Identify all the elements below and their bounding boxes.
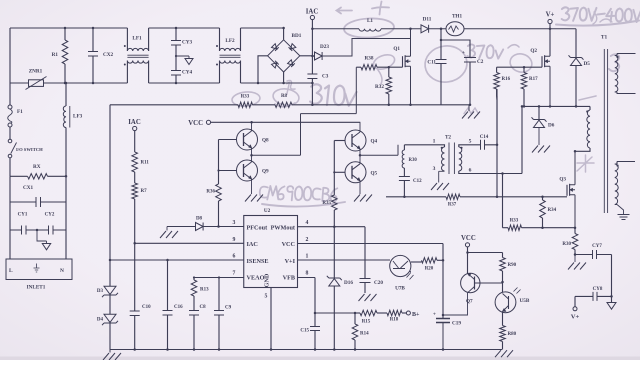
pin 7 — [233, 270, 236, 276]
svg-text:C16: C16 — [174, 305, 183, 310]
capacitor C9 — [214, 278, 232, 351]
svg-text:D6: D6 — [548, 123, 555, 129]
resistor R8 — [275, 94, 292, 108]
resistor RX — [10, 164, 67, 179]
svg-text:8: 8 — [306, 270, 309, 276]
svg-text:5: 5 — [469, 139, 472, 145]
node V+ — [571, 296, 580, 320]
svg-text:L1: L1 — [367, 18, 373, 24]
svg-text:R35: R35 — [322, 201, 331, 206]
svg-text:VCC: VCC — [188, 120, 203, 127]
wire — [496, 96, 498, 145]
resistor R13 — [191, 278, 209, 311]
svg-text:R37: R37 — [448, 203, 457, 208]
ground — [568, 255, 586, 270]
svg-text:PFCout: PFCout — [247, 224, 269, 231]
pencil arrow — [337, 8, 353, 14]
ground — [354, 195, 372, 202]
svg-text:Q1: Q1 — [393, 46, 400, 52]
resistor R33 — [503, 219, 576, 231]
T1 secondary winding top — [615, 54, 636, 94]
transistor Q5 — [334, 155, 377, 194]
svg-text:T2: T2 — [445, 135, 451, 141]
transistor Q7 — [461, 273, 503, 304]
svg-text:CY3: CY3 — [182, 40, 192, 46]
ground — [175, 55, 193, 65]
switch I/O SWITCH — [8, 127, 43, 176]
node VCC — [188, 120, 360, 127]
wire — [312, 28, 359, 30]
capacitor CY7 — [575, 244, 612, 259]
pencil oval around R33 label — [231, 91, 260, 107]
pencil letter R near bridge — [285, 81, 295, 95]
T1 primary winding — [574, 106, 590, 152]
svg-text:R14: R14 — [360, 332, 369, 337]
svg-text:CX1: CX1 — [23, 185, 33, 191]
capacitor C14 — [466, 135, 497, 150]
svg-text:6: 6 — [469, 168, 472, 174]
svg-text:C9: C9 — [225, 306, 232, 311]
svg-text:CY1: CY1 — [18, 213, 28, 218]
resistor R37 — [386, 194, 567, 207]
ground — [607, 303, 616, 310]
svg-text:1: 1 — [433, 139, 436, 145]
svg-text:D5: D5 — [584, 61, 591, 67]
svg-text:VCC: VCC — [461, 235, 476, 242]
capacitor C2 — [441, 40, 484, 106]
capacitor CY3 — [171, 27, 192, 56]
ground — [462, 105, 480, 119]
pin 3 — [233, 220, 236, 226]
svg-text:TH1: TH1 — [452, 14, 462, 20]
pencil oval around L1 — [344, 17, 395, 39]
transistor Q9 — [217, 155, 269, 194]
optocoupler U7B — [390, 255, 414, 291]
pencil 3 annotation — [609, 54, 621, 72]
node IAC — [128, 119, 141, 152]
handwritten 370V annotation — [467, 44, 503, 59]
capacitor C8 — [189, 305, 206, 351]
svg-text:2: 2 — [306, 237, 309, 243]
pin 8 — [306, 270, 309, 276]
svg-text:R90: R90 — [508, 263, 517, 268]
resistor R36 — [206, 184, 221, 227]
wire — [442, 293, 468, 316]
T1 secondary winding bottom — [615, 162, 635, 215]
svg-text:VCC: VCC — [282, 241, 295, 248]
svg-text:BD1: BD1 — [292, 33, 302, 39]
svg-text:F1: F1 — [17, 109, 23, 115]
resistor R80 — [500, 312, 517, 350]
diode D23 — [312, 39, 410, 61]
svg-text:V+: V+ — [571, 314, 580, 321]
svg-text:C2: C2 — [477, 59, 484, 65]
svg-text:LF2: LF2 — [225, 38, 235, 44]
zener D16 — [327, 227, 354, 351]
mosfet Q2 — [530, 48, 550, 106]
resistor R18 — [377, 310, 406, 322]
wire — [298, 244, 445, 319]
svg-text:LF3: LF3 — [73, 114, 83, 120]
svg-text:5: 5 — [265, 294, 268, 300]
svg-text:3: 3 — [233, 220, 236, 226]
svg-text:R32: R32 — [375, 84, 384, 90]
wire — [521, 105, 590, 108]
pencil oval around C11 C2 — [423, 43, 470, 84]
svg-text:R33: R33 — [510, 219, 519, 224]
capacitor C12 — [399, 177, 422, 199]
wire — [110, 259, 244, 262]
svg-text:IAC: IAC — [306, 9, 319, 16]
svg-text:Q8: Q8 — [262, 138, 269, 144]
pencil zigzag near ground — [464, 108, 478, 114]
node B+ — [406, 311, 420, 318]
resistor R14 — [352, 312, 369, 351]
zener D5 — [569, 29, 591, 108]
resistor R35 — [322, 141, 337, 227]
svg-text:Q9: Q9 — [262, 169, 269, 175]
svg-text:V+I: V+I — [285, 258, 296, 265]
fuse F1 — [8, 83, 23, 127]
resistor R38 — [356, 56, 402, 70]
wire — [241, 82, 313, 84]
capacitor C11 — [427, 29, 446, 105]
svg-text:D11: D11 — [423, 17, 432, 23]
wire — [109, 105, 112, 261]
svg-text:R7: R7 — [141, 189, 148, 194]
wire — [10, 27, 284, 29]
svg-text:C3: C3 — [322, 74, 329, 80]
transformer T2 — [433, 135, 472, 175]
transistor Q4 — [334, 122, 377, 155]
svg-text:CY7: CY7 — [592, 244, 602, 249]
svg-text:9: 9 — [233, 237, 236, 243]
wire — [496, 89, 499, 146]
wire — [315, 312, 355, 314]
svg-text:7: 7 — [233, 270, 236, 276]
pin 2 — [306, 237, 309, 243]
wire — [464, 28, 576, 30]
svg-text:C11: C11 — [427, 60, 436, 66]
bridge rectifier BD1 — [268, 27, 302, 85]
junction — [466, 251, 502, 254]
svg-text:Q4: Q4 — [371, 139, 378, 145]
svg-text:Q5: Q5 — [371, 171, 378, 177]
resistor R11 — [132, 152, 149, 183]
svg-text:B+: B+ — [412, 312, 420, 318]
wire — [193, 276, 244, 278]
resistor R7 — [132, 183, 147, 243]
mosfet Q3 — [559, 151, 576, 229]
svg-text:R30: R30 — [562, 242, 571, 247]
wire — [10, 82, 258, 84]
capacitor CX1 — [10, 185, 66, 207]
svg-text:R20: R20 — [425, 267, 434, 272]
svg-text:V+: V+ — [546, 12, 555, 19]
svg-text:VFB: VFB — [283, 275, 295, 282]
junction — [311, 28, 314, 107]
wire — [298, 278, 316, 314]
diode D8 — [167, 217, 244, 231]
wire — [133, 242, 243, 245]
svg-text:C14: C14 — [480, 135, 489, 140]
handwritten CM6900CBG annotation — [259, 185, 345, 206]
svg-text:IAC: IAC — [128, 119, 141, 126]
zener D4 — [97, 295, 118, 350]
pencil plus mark — [372, 2, 389, 15]
svg-text:VEAO: VEAO — [247, 275, 265, 282]
wire — [359, 145, 398, 157]
svg-text:R80: R80 — [508, 332, 517, 337]
resistor R32 — [375, 66, 392, 106]
svg-text:D3: D3 — [97, 289, 104, 294]
capacitor C19 — [433, 312, 461, 351]
handwritten 310V annotation — [310, 84, 357, 107]
wire — [300, 55, 313, 57]
svg-text:R8: R8 — [281, 94, 288, 99]
svg-text:4: 4 — [306, 220, 309, 226]
resistor R34 — [540, 197, 557, 229]
svg-text:LF1: LF1 — [132, 36, 142, 42]
resistor R33 — [238, 95, 253, 108]
svg-text:6: 6 — [233, 254, 236, 260]
svg-text:R16: R16 — [502, 77, 511, 82]
svg-text:CX2: CX2 — [103, 52, 113, 58]
pencil scribble near Q2 — [508, 45, 534, 75]
mosfet Q1 — [393, 28, 411, 107]
zener D6 — [532, 105, 555, 145]
capacitor C3 — [307, 74, 328, 105]
ground — [160, 227, 178, 239]
handwritten 370V-400V annotation — [556, 7, 640, 26]
inductor LF3 — [63, 82, 82, 177]
common-mode choke LF2 — [216, 28, 241, 83]
svg-text:CY4: CY4 — [182, 70, 192, 76]
ground — [36, 229, 51, 250]
inductor R30 — [402, 145, 417, 177]
svg-text:U5B: U5B — [520, 298, 530, 304]
svg-text:U2: U2 — [264, 208, 271, 214]
svg-text:R38: R38 — [365, 56, 374, 62]
svg-text:C8: C8 — [200, 305, 207, 310]
wire — [218, 140, 220, 185]
node IAC — [306, 9, 319, 75]
varistor ZNR1 — [26, 69, 47, 90]
svg-text:R36: R36 — [206, 190, 215, 195]
svg-text:R1: R1 — [52, 52, 59, 58]
wire — [381, 28, 421, 30]
diode D11 — [421, 17, 432, 33]
capacitor C15 — [300, 312, 320, 351]
svg-text:C19: C19 — [452, 321, 461, 327]
capacitor CY2 — [37, 213, 66, 235]
resistor R15 — [355, 310, 377, 324]
ground — [103, 350, 121, 361]
pin 6 — [233, 254, 236, 260]
ground — [532, 146, 550, 153]
svg-text:+: + — [462, 50, 465, 56]
svg-text:C12: C12 — [413, 179, 422, 184]
svg-text:GND: GND — [264, 273, 271, 287]
resistor R30 — [562, 228, 577, 256]
resistor R1 — [52, 27, 68, 85]
resistor R16 — [494, 66, 542, 100]
svg-text:L: L — [9, 268, 13, 274]
svg-text:C20: C20 — [374, 280, 383, 286]
pin 5 — [265, 288, 273, 351]
pencil swirl below 400V — [593, 12, 612, 24]
ground — [431, 171, 449, 190]
capacitor CX2 — [88, 27, 113, 85]
svg-text:PWMout: PWMout — [271, 224, 296, 231]
pencil marks near T1 — [577, 96, 596, 172]
wire — [496, 145, 499, 198]
pin 1 — [306, 254, 309, 260]
pencil scribble near Q1 gate — [371, 52, 396, 84]
resistor R20 — [411, 258, 443, 272]
node V+ — [546, 12, 555, 57]
wire — [9, 28, 11, 83]
wire — [298, 259, 391, 261]
transformer T1 — [601, 35, 608, 214]
ground — [618, 215, 630, 220]
svg-text:R17: R17 — [529, 77, 538, 82]
svg-text:R13: R13 — [200, 288, 209, 293]
capacitor C20 — [359, 227, 384, 301]
svg-text:R33: R33 — [241, 95, 250, 100]
svg-text:C15: C15 — [300, 329, 309, 334]
inductor L1 — [359, 18, 381, 31]
common-mode choke LF1 — [124, 28, 149, 83]
wire — [250, 67, 356, 156]
svg-text:ISENSE: ISENSE — [247, 258, 269, 265]
svg-text:INLET1: INLET1 — [27, 285, 46, 291]
svg-text:Q2: Q2 — [530, 48, 537, 54]
ground — [245, 195, 263, 202]
svg-text:IAC: IAC — [247, 241, 258, 248]
IC U2 — [244, 208, 298, 288]
wire — [459, 145, 466, 147]
wire — [10, 176, 66, 259]
svg-text:R11: R11 — [141, 161, 150, 166]
node VCC — [461, 235, 476, 273]
capacitor CY4 — [171, 56, 192, 84]
svg-text:C10: C10 — [142, 305, 151, 310]
resistor R90 — [500, 253, 517, 284]
svg-text:R18: R18 — [390, 318, 399, 323]
svg-text:R30: R30 — [409, 158, 418, 163]
svg-text:ZNR1: ZNR1 — [29, 69, 43, 75]
wire — [257, 56, 268, 84]
svg-text:RX: RX — [33, 164, 41, 170]
wire — [110, 349, 502, 351]
svg-text:D4: D4 — [97, 318, 104, 323]
resistor R17 — [521, 67, 538, 107]
svg-text:Q3: Q3 — [559, 177, 566, 183]
wire — [429, 28, 446, 31]
svg-text:D23: D23 — [320, 44, 329, 50]
svg-text:U7B: U7B — [395, 286, 405, 292]
svg-text:CY8: CY8 — [593, 287, 603, 292]
wire — [298, 225, 366, 228]
wire — [110, 104, 469, 106]
svg-text:R34: R34 — [548, 208, 557, 213]
ground — [495, 350, 513, 357]
wire — [502, 174, 504, 228]
pin 4 — [306, 220, 309, 226]
svg-text:N: N — [60, 268, 64, 274]
optocoupler U5B — [495, 282, 530, 313]
svg-text:1: 1 — [306, 254, 309, 260]
capacitor C10 — [130, 243, 151, 350]
svg-text:D8: D8 — [196, 217, 203, 222]
wire — [459, 106, 522, 174]
svg-text:T1: T1 — [601, 35, 608, 41]
capacitor C16 — [163, 260, 184, 351]
svg-text:I/O SWITCH: I/O SWITCH — [16, 147, 43, 152]
svg-text:3: 3 — [433, 166, 436, 172]
wire — [610, 255, 613, 303]
thermistor TH1 — [446, 14, 464, 36]
pencil oval around R8 label — [272, 87, 300, 107]
capacitor CY1 — [10, 213, 37, 235]
wire — [404, 145, 444, 147]
svg-text:D16: D16 — [344, 280, 353, 286]
capacitor CY8 — [575, 287, 612, 301]
svg-text:+: + — [433, 312, 436, 318]
AC inlet INLET1 — [6, 259, 72, 291]
transistor Q8 — [219, 122, 270, 155]
svg-text:CY2: CY2 — [45, 213, 55, 218]
zener D3 — [97, 260, 118, 297]
svg-text:R15: R15 — [362, 320, 371, 325]
pin 9 — [233, 237, 236, 243]
